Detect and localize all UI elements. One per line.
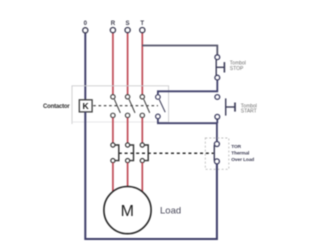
label TOR Thermal Over Load xyxy=(231,144,254,163)
label Contactor xyxy=(43,104,70,110)
overload heater element S xyxy=(126,143,134,163)
TOR dashed enclosure box xyxy=(205,138,229,169)
contactor coil K xyxy=(79,100,92,112)
wire T contact to overload heater xyxy=(141,118,143,143)
svg-text:S: S xyxy=(126,20,130,27)
terminal 0 xyxy=(83,20,88,33)
motor M xyxy=(104,187,151,234)
mechanical linkage dashed heaters to TOR trip contact xyxy=(119,152,214,154)
wire control tap from T to stop button xyxy=(142,46,217,55)
svg-text:R: R xyxy=(111,20,116,27)
svg-text:M: M xyxy=(121,203,134,220)
push button START (NO) xyxy=(215,95,235,120)
terminal R xyxy=(110,20,115,33)
wire S phase vertical xyxy=(127,33,129,95)
svg-text:Contactor: Contactor xyxy=(43,104,70,110)
overload heater element R xyxy=(111,143,119,163)
contactor main contact pole R xyxy=(111,95,121,118)
wire S contact to overload heater xyxy=(127,118,129,143)
wire bottom rail aux/start to TOR xyxy=(158,119,217,142)
push button STOP (NC) xyxy=(215,55,224,80)
contactor main contact pole T xyxy=(140,95,150,118)
wire neutral from K coil down and along bottom to TOR xyxy=(85,112,217,239)
wire L-neutral 0 vertical xyxy=(84,33,86,100)
contactor auxiliary contact xyxy=(156,95,166,119)
mechanical linkage dashed from K coil xyxy=(93,105,158,107)
wire T heater to motor xyxy=(141,163,143,193)
svg-text:Thermal: Thermal xyxy=(231,151,249,157)
wire start button bottom stub xyxy=(216,119,218,123)
svg-text:K: K xyxy=(82,101,89,111)
svg-text:0: 0 xyxy=(84,20,88,27)
wire R phase vertical xyxy=(112,33,114,95)
svg-text:Over Load: Over Load xyxy=(231,157,254,163)
TOR trip contact (NC) xyxy=(214,142,219,164)
contactor group outline box xyxy=(72,86,169,124)
svg-text:STOP: STOP xyxy=(230,66,244,72)
wire S heater to motor xyxy=(127,163,129,187)
wire top rail aux to stop/start junction xyxy=(158,80,217,94)
wire R contact to overload heater xyxy=(112,118,114,143)
terminal S xyxy=(125,20,130,33)
label Tombol START xyxy=(241,104,257,115)
svg-text:Load: Load xyxy=(160,206,181,217)
label Tombol STOP xyxy=(230,61,246,72)
contactor main contact pole S xyxy=(125,95,135,118)
wire T phase vertical xyxy=(141,33,143,95)
svg-text:TOR: TOR xyxy=(231,144,241,150)
label Load xyxy=(160,206,181,217)
wire R heater to motor xyxy=(112,163,114,193)
svg-text:START: START xyxy=(241,109,257,115)
terminal T xyxy=(140,20,145,33)
overload heater element T xyxy=(140,143,148,163)
svg-text:T: T xyxy=(140,20,144,27)
